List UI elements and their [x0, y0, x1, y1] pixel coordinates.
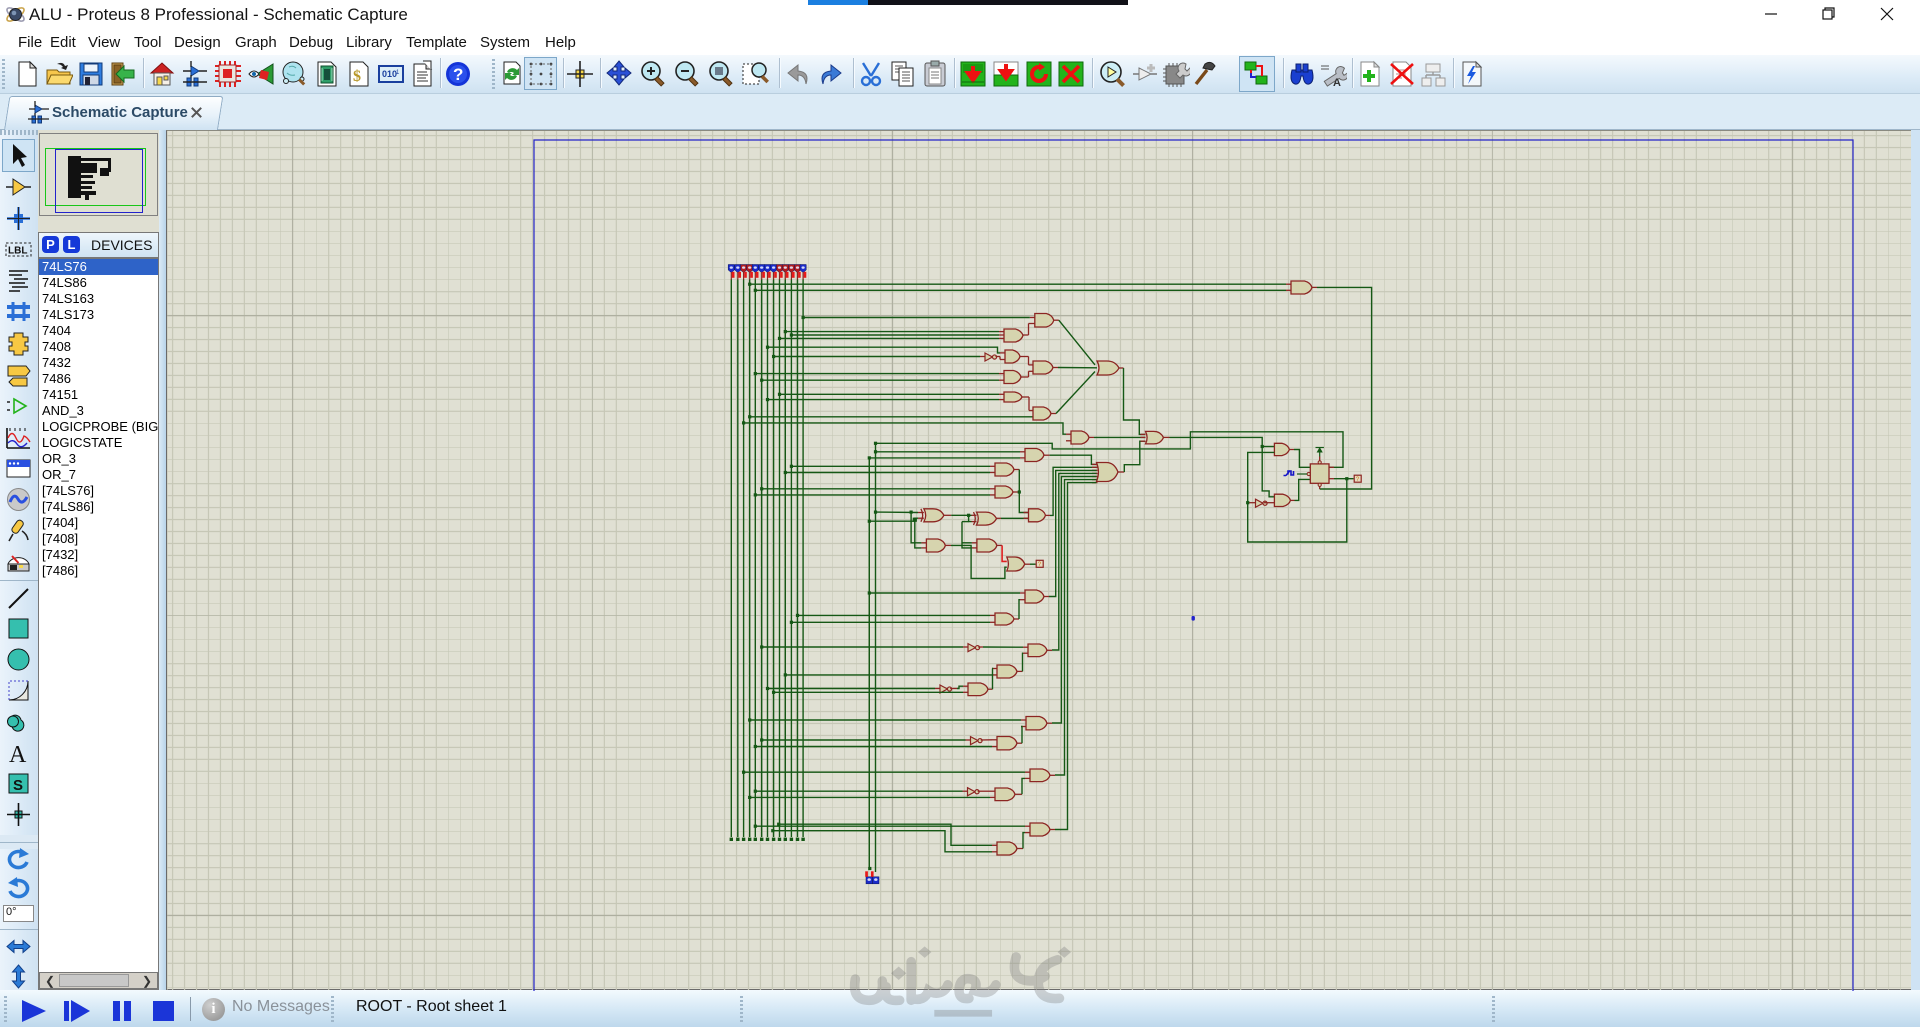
sheet border	[534, 140, 1853, 991]
inverter U_N1	[985, 353, 992, 361]
wire U_J out to U_M in1	[1019, 470, 1028, 513]
or-gate U_OR7 (OR_7)	[1097, 463, 1119, 482]
svg-text:LBL: LBL	[8, 246, 27, 257]
logicstate toggle 13	[800, 265, 806, 273]
or-gate U_OB	[1007, 557, 1025, 571]
inverter U_P2i	[971, 737, 978, 745]
logicstate toggle 10	[782, 265, 788, 273]
wire U_T out to FF preset	[1317, 287, 1372, 489]
wire sw-bus to U_I in2	[869, 457, 1020, 459]
wire U_I out to U_OR7 in1	[1050, 455, 1097, 464]
link U_E out to U_D in2	[1026, 376, 1029, 378]
svg-text:?: ?	[453, 65, 463, 84]
wire bus to U_N1	[774, 356, 980, 358]
wire U_N3i out to U_N3 in1	[957, 686, 963, 688]
wire bus to U_N2i	[762, 646, 963, 648]
logicprobe P1	[1354, 475, 1361, 482]
wire U_OR3 out to U_R1/U_R2	[1170, 437, 1275, 496]
feeder f5 from U_Q1 out	[1055, 480, 1097, 775]
logicstate toggle SW2	[873, 877, 879, 884]
logicstate toggle 4	[747, 265, 753, 273]
and-gate U_P1	[1026, 717, 1047, 730]
wire junction to U_X2 in2 and U_L2	[969, 515, 972, 521]
logicstate toggle 2	[735, 265, 741, 273]
and-gate U_X1b	[1025, 590, 1044, 603]
wire U_OB out to probe	[1030, 563, 1036, 565]
watermark	[838, 942, 1098, 1020]
or-gate U_OR3 (OR_3)	[1146, 431, 1164, 444]
and-gate U_I	[1025, 449, 1044, 462]
feedback loop wire	[1248, 452, 1347, 542]
wire U_N2 out to U_N1 in2	[1022, 653, 1025, 671]
and-gate U_F	[1004, 392, 1022, 402]
and-gate U_Q1	[1030, 769, 1050, 782]
wire U_A out diagonal to U_OR	[1059, 320, 1095, 365]
and-gate U_T (7408)	[1291, 281, 1312, 294]
wire bus to U_S1 in1	[755, 825, 1025, 827]
wire U_X2 out to U_M in2	[1001, 517, 1029, 519]
and-gate U_K	[995, 486, 1013, 498]
wire U_H out to U_OR3 in2	[1094, 436, 1146, 438]
svg-text:$: $	[353, 68, 361, 85]
logicstate toggle 6	[759, 265, 765, 273]
feeder f3 from U_N1 out	[1052, 473, 1097, 650]
wire bus to U_X2b in2	[791, 621, 990, 623]
logicstate toggle 8	[771, 265, 777, 273]
and-gate U_P2	[997, 737, 1017, 750]
and-gate U_E	[1004, 371, 1021, 384]
logicprobe P2	[1036, 560, 1043, 567]
logicstate toggle 9	[776, 265, 782, 273]
wire bus to U_G in2	[750, 416, 1033, 418]
wire U_M out to U_OR7 in2	[1050, 467, 1097, 515]
wire bus to U_K in1	[762, 488, 990, 490]
wire U_Q2 out to U_Q1 in2	[1022, 778, 1025, 794]
wire bus to U_E in1	[755, 373, 999, 375]
inverter U_N3i	[940, 685, 947, 693]
wire bus to U_Q2i	[755, 790, 962, 792]
logicstate toggle SW1	[866, 877, 872, 884]
link U_C out to U_D in1	[1025, 356, 1029, 358]
logicstate toggle 1	[728, 265, 734, 273]
wire sw-bus to U_I in1	[876, 451, 1021, 453]
logicstate toggle 3	[741, 265, 747, 273]
and-gate U_S1	[1030, 823, 1050, 836]
wire bus to U_N3i	[768, 688, 936, 690]
and-gate U_R1	[1274, 443, 1289, 455]
wire bus to U_T in1	[750, 283, 1286, 285]
and-gate U_G	[1033, 407, 1051, 420]
clock source glyph	[1284, 471, 1294, 476]
wire junction to U_L1 in2	[915, 521, 922, 548]
wire U_D out to U_OR mid	[1058, 367, 1097, 369]
wire bus to U_N2 in2	[785, 674, 992, 676]
logicstate toggle 12	[794, 265, 800, 273]
link U_N1 to U_C	[996, 356, 1001, 358]
svg-text:A: A	[1333, 77, 1341, 88]
wire U_P2 out to U_P1 in2	[1021, 727, 1022, 744]
wire U_N3 out to U_N2 in1	[991, 669, 994, 690]
and-gate U_D	[1033, 361, 1053, 374]
and-gate U_C	[1005, 350, 1020, 363]
red wire U_L2 out to U_OB in1	[1002, 545, 1007, 561]
wire bus to U_X2b in1	[798, 614, 991, 616]
wire bus to U_P2 in2	[755, 746, 992, 748]
feeder f2 from U_X1out	[1049, 470, 1097, 596]
and-gate U_M	[1029, 509, 1046, 522]
logicstate toggle 7	[764, 265, 770, 273]
wire bus to U_N3 in2	[774, 691, 963, 693]
wire U_L1 out loop to U_OB in2	[951, 545, 1007, 578]
wire sw-bus to U_X1 in1	[876, 511, 919, 513]
and-gate U_L1	[926, 539, 945, 552]
wire U_OR7 out to U_OR3 in3	[1124, 441, 1145, 472]
wire bus to U_P2i	[762, 739, 966, 741]
svg-text:010: 010	[382, 69, 397, 79]
and-gate U_N1	[1028, 644, 1047, 657]
and-gate U_H	[1071, 431, 1089, 444]
wire U_G out diagonal to U_OR	[1056, 372, 1095, 414]
wire bus to U_C in1	[768, 347, 1001, 353]
wire U_S2 out to U_S1 in2	[1023, 833, 1025, 849]
and-gate U_A	[1035, 314, 1054, 328]
sw-bus verticals	[868, 458, 870, 869]
wire sw-bus to U_X1 in2	[869, 518, 918, 521]
svg-text:A: A	[9, 742, 27, 766]
wire bus to U_F in2	[768, 399, 1000, 401]
wire U_X1 out to U_X2	[951, 514, 971, 516]
or-gate U_OR (7432)	[1097, 361, 1119, 375]
link U_B out to U_A in2	[1028, 334, 1029, 336]
wire junction to U_L1 in1	[911, 512, 921, 543]
xor-gate U_X1 (7486)	[924, 509, 944, 522]
link U_F out to U_G in1	[1028, 397, 1030, 411]
wire bus to U_P1 in1	[750, 719, 1021, 721]
inverter U_Q2i	[968, 788, 975, 796]
wire bus to U_B in1	[785, 331, 999, 333]
and-gate U_S2	[997, 842, 1017, 855]
logicstate toggle 11	[788, 265, 794, 273]
feeder f6 from U_S1 out	[1055, 483, 1097, 830]
inverter U_N2i	[968, 644, 975, 652]
wire bus to U_B in2	[791, 334, 999, 336]
wire bus to U_Q2 in2	[750, 796, 990, 798]
wire bus to U_F in1	[780, 393, 1000, 395]
inverter U_NR	[1256, 499, 1263, 507]
wire bus to U_T in2	[755, 289, 1286, 291]
wire U_OR out to U_OR3 in1	[1124, 368, 1146, 434]
wire bus to U_A in1	[803, 317, 1030, 319]
wire U_R1 out to FF J	[1294, 450, 1310, 468]
and-gate U_B	[1004, 329, 1023, 342]
wire U_N2i out to U_N1 in1	[983, 646, 1023, 648]
and-gate U_Q2	[995, 788, 1015, 801]
power terminal	[1319, 449, 1321, 457]
wire bus to U_E in2	[762, 379, 999, 381]
and-gate U_N2	[997, 665, 1017, 678]
and-gate U_R2	[1274, 494, 1290, 506]
wire bus to U_J in2	[785, 472, 990, 474]
wire U_X2b out to U_X1b in2	[1019, 600, 1020, 619]
wire bus loop to U_S2 in2	[773, 831, 992, 852]
xor-gate U_X2 (7486)	[977, 512, 997, 525]
bus wires	[730, 280, 732, 838]
wire bus to U_J in1	[791, 465, 990, 467]
wire FF Q' to probe	[1334, 478, 1354, 480]
wire sw-bus link to FF Q	[876, 432, 1344, 468]
wire bus to U_Q1 in1	[744, 771, 1025, 773]
svg-text:S: S	[13, 777, 23, 794]
and-gate U_X2b	[995, 613, 1014, 625]
wire bus to U_H in1	[744, 423, 1066, 434]
feeder f4 from U_P1 out	[1052, 477, 1097, 724]
wire bus to U_B in3	[780, 337, 1000, 339]
and-gate U_N3	[968, 683, 988, 696]
and-gate U_J	[995, 463, 1014, 476]
wire U_R2 out to FF K	[1295, 479, 1311, 500]
flip-flop U_FF (74LS76)	[1310, 464, 1329, 483]
wire bus loop to U_S2 in1	[779, 824, 992, 845]
origin marker	[1192, 616, 1195, 621]
and-gate U_L2	[977, 539, 997, 552]
logicstate toggle 5	[752, 265, 758, 273]
wire sw-bus to U_X1b in1	[869, 592, 1020, 594]
wire bus to U_K in2	[755, 494, 990, 496]
